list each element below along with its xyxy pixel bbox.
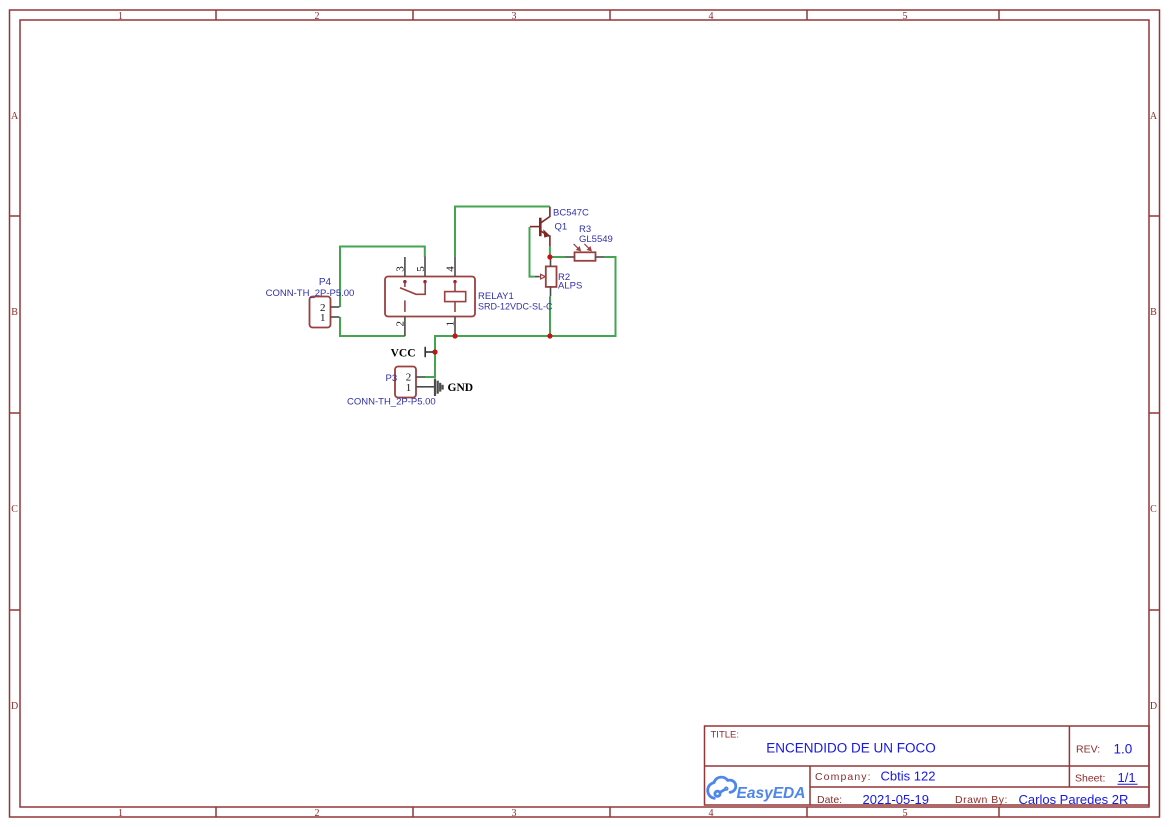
svg-text:Company:: Company: (815, 771, 872, 783)
svg-text:B: B (1150, 307, 1157, 318)
svg-text:SRD-12VDC-SL-C: SRD-12VDC-SL-C (478, 302, 553, 312)
frame row letters left (11, 111, 19, 712)
frame row letters right (1150, 111, 1158, 712)
R2 pin 3 bottom (550, 287, 552, 296)
relay pin numbers 3 5 4 2 1 (395, 266, 457, 327)
wire R3 right around to bottom rail (550, 257, 616, 336)
ground GND flag (425, 379, 474, 397)
EasyEDA logo (708, 777, 806, 802)
Q1 emitter (540, 231, 550, 247)
VCC symbol bar (424, 347, 426, 357)
svg-text:A: A (11, 111, 19, 122)
svg-text:GND: GND (448, 382, 474, 394)
R2 pin 1 top (550, 259, 552, 266)
P4 pin 1 (331, 316, 340, 318)
svg-text:Q1: Q1 (555, 222, 568, 233)
svg-text:1/1: 1/1 (1118, 770, 1136, 785)
Q1 base bar (539, 218, 542, 237)
svg-text:P4: P4 (319, 277, 332, 288)
P4 body (310, 297, 331, 328)
R3 pin 1 left (566, 256, 575, 258)
VCC symbol lead (425, 351, 433, 353)
svg-text:CONN-TH_2P-P5.00: CONN-TH_2P-P5.00 (347, 397, 436, 408)
svg-text:1: 1 (445, 321, 457, 327)
svg-text:1: 1 (118, 11, 123, 22)
svg-text:C: C (11, 504, 18, 515)
photoresistor R3 (566, 244, 605, 261)
svg-text:Drawn By:: Drawn By: (955, 794, 1008, 806)
Q1 base lead (530, 226, 540, 228)
relay pin 5 (424, 257, 426, 277)
svg-text:1: 1 (118, 808, 123, 819)
svg-text:5: 5 (415, 266, 427, 272)
wire P4 pin2 to relay pin5 (340, 247, 425, 308)
relay pin 1 (454, 317, 456, 337)
relay pin connection pips (403, 280, 406, 283)
relay RELAY1 (385, 257, 475, 336)
R2 wiper arrow (541, 274, 546, 279)
wire node to R3 left (550, 256, 566, 258)
P3 pin 1 (416, 386, 425, 388)
svg-text:4: 4 (445, 266, 457, 272)
svg-text:Carlos Paredes 2R: Carlos Paredes 2R (1019, 792, 1129, 807)
wire bottom rail to P3 pin2 (424, 336, 550, 377)
GND bars (434, 379, 436, 397)
junction node R2 bottom / rail (547, 333, 552, 338)
svg-text:3: 3 (512, 11, 517, 22)
P4 pin 2 (331, 306, 340, 308)
R3 light arrows (574, 244, 592, 251)
svg-text:Cbtis 122: Cbtis 122 (881, 769, 936, 784)
svg-text:CONN-TH_2P-P5.00: CONN-TH_2P-P5.00 (266, 288, 355, 299)
wire relay pin4 to Q1 collector (455, 207, 550, 258)
svg-text:3: 3 (395, 266, 407, 272)
svg-text:D: D (1150, 701, 1157, 712)
relay pin 4 (454, 257, 456, 277)
R3 pin 2 right (596, 256, 605, 258)
svg-text:GL5549: GL5549 (579, 234, 613, 245)
P3 body (395, 367, 416, 398)
R3 body (575, 252, 596, 260)
frame column numbers top (118, 11, 908, 22)
svg-text:EasyEDA: EasyEDA (737, 785, 806, 802)
junction node VCC (432, 349, 437, 354)
svg-text:A: A (1150, 111, 1158, 122)
connector P3 (395, 367, 425, 398)
svg-text:5: 5 (903, 808, 908, 819)
relay switch contact (400, 282, 425, 312)
svg-text:4: 4 (709, 11, 714, 22)
svg-text:Date:: Date: (817, 794, 842, 806)
R2 wiper pin 2 (535, 276, 540, 278)
wire P4 pin1 to relay pin2 (340, 317, 405, 336)
junction node Q1 emitter/R2/R3 (547, 254, 552, 259)
svg-text:2: 2 (395, 321, 407, 327)
svg-text:TITLE:: TITLE: (711, 730, 740, 741)
svg-text:P3: P3 (386, 373, 398, 384)
svg-text:RELAY1: RELAY1 (478, 291, 514, 302)
Q1 emitter arrow (543, 229, 550, 237)
P3 pin 2 (416, 376, 425, 378)
svg-text:2: 2 (315, 11, 320, 22)
svg-text:2021-05-19: 2021-05-19 (863, 792, 930, 807)
svg-text:D: D (11, 701, 18, 712)
svg-text:1: 1 (320, 312, 326, 324)
connector P4 (310, 297, 340, 328)
svg-text:1.0: 1.0 (1114, 742, 1133, 757)
relay pin 2 (404, 317, 406, 337)
wire Q1 base to R2 wiper (530, 227, 535, 277)
Q1 collector (540, 207, 550, 223)
svg-text:VCC: VCC (391, 348, 416, 360)
wire R2 bottom to rail (549, 296, 551, 336)
svg-text:3: 3 (512, 808, 517, 819)
R2 body (546, 266, 557, 287)
svg-text:2: 2 (315, 808, 320, 819)
power flag VCC (391, 347, 433, 360)
frame column numbers bottom (118, 808, 908, 819)
svg-text:4: 4 (709, 808, 714, 819)
relay pin 3 (404, 257, 406, 277)
svg-text:REV:: REV: (1076, 744, 1100, 756)
svg-text:5: 5 (903, 11, 908, 22)
svg-text:ENCENDIDO DE UN FOCO: ENCENDIDO DE UN FOCO (766, 740, 936, 755)
svg-text:ALPS: ALPS (558, 281, 582, 292)
svg-text:1: 1 (406, 382, 412, 394)
potentiometer R2 (535, 259, 557, 296)
GND lead (425, 386, 435, 388)
junction node relay pin1 / rail (452, 333, 457, 338)
svg-text:Sheet:: Sheet: (1075, 773, 1105, 785)
relay coil (445, 282, 466, 312)
TITLE BLOCK (705, 726, 1150, 805)
transistor Q1 (530, 207, 550, 247)
svg-text:B: B (11, 307, 18, 318)
svg-text:C: C (1150, 504, 1157, 515)
svg-text:BC547C: BC547C (553, 208, 589, 219)
wire Q1 emitter to node (549, 246, 551, 258)
